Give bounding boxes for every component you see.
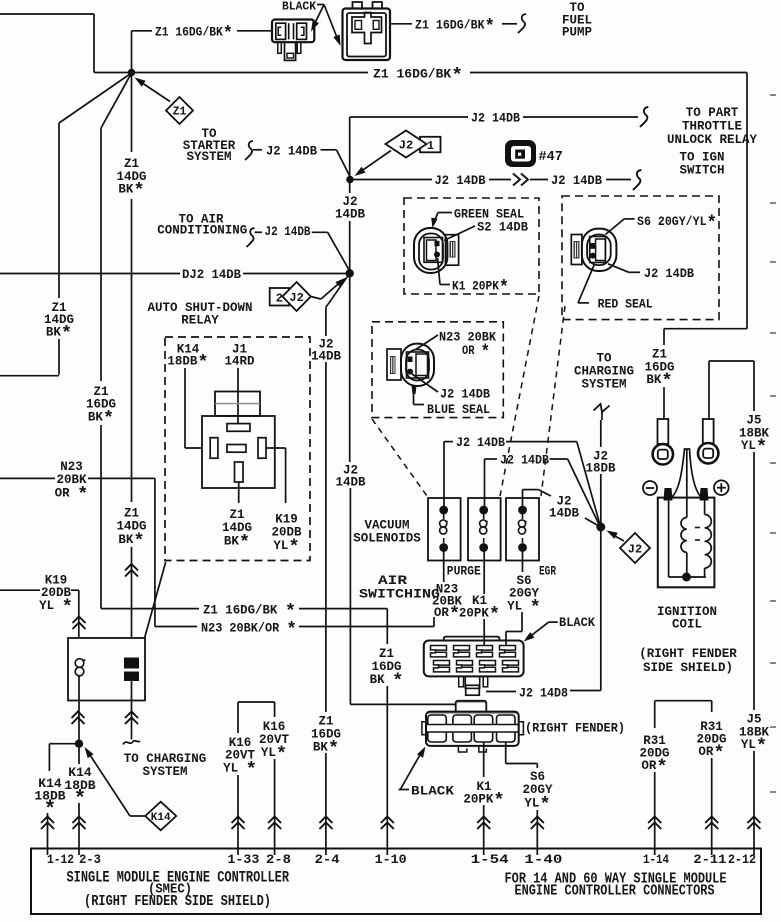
svg-text:N23: N23	[60, 460, 83, 474]
blue seal round connector	[387, 344, 434, 386]
wire S6 from EGR solenoid	[506, 548, 541, 646]
junction node dot A	[128, 69, 136, 77]
label TO STARTER SYSTEM with lead	[183, 127, 350, 177]
green seal connector dashed box	[404, 198, 539, 294]
wire N23 20BK OR from left edge	[0, 460, 155, 627]
svg-text:Z1: Z1	[652, 348, 667, 362]
wire J5 18BK YL to pin 2-12	[739, 713, 770, 856]
svg-text:PURGE: PURGE	[447, 565, 481, 579]
relay K14 pin wire	[185, 368, 202, 448]
svg-text:14RD: 14RD	[224, 355, 255, 369]
svg-text:K16: K16	[263, 720, 286, 734]
svg-text:PUMP: PUMP	[562, 26, 592, 40]
wire Z1 16DG/BK top horizontal bus	[132, 23, 273, 73]
svg-text:(RIGHT FENDER): (RIGHT FENDER)	[525, 722, 625, 736]
wire J2 14DB to part throttle unlock relay	[350, 107, 649, 127]
label J2 14DB (red seal) with leader	[608, 264, 694, 281]
svg-text:2-4: 2-4	[315, 852, 340, 867]
svg-text:Z1: Z1	[173, 106, 187, 119]
wire Z1 16DG BK to pin 1-10	[370, 609, 404, 855]
svg-text:J2 14DB: J2 14DB	[551, 174, 602, 188]
svg-text:1-14: 1-14	[643, 852, 669, 867]
relay/capacitor component box (left)	[68, 638, 145, 701]
wire top-left feed from left edge	[0, 14, 132, 73]
svg-text:RED SEAL: RED SEAL	[598, 298, 653, 312]
svg-text:COIL: COIL	[672, 618, 702, 632]
label RED SEAL with leader	[578, 265, 653, 312]
svg-text:SWITCHING: SWITCHING	[359, 588, 440, 602]
wire Z1 14DG BK vertical (x=131.5)	[116, 73, 146, 639]
svg-text:J2: J2	[628, 542, 642, 556]
dashed leader blue box to purge solenoid	[372, 419, 427, 496]
ring terminal (coil negative)	[653, 419, 673, 464]
to charging system break symbol	[594, 404, 610, 420]
label N23 20BK OR (blue seal) with leader	[415, 331, 496, 364]
wire K16 20VT YL to pin 2-8	[259, 720, 290, 855]
relay contact wire to K19	[266, 448, 286, 503]
svg-text:GREEN SEAL: GREEN SEAL	[454, 208, 524, 222]
wire R31 splice bracket	[655, 701, 712, 728]
svg-text:S2 14DB: S2 14DB	[477, 221, 528, 235]
wire R31 20DG OR to pin 1-14	[639, 734, 669, 855]
wire J2 14DB from A/C junction to pin 2-4	[311, 273, 350, 855]
svg-text:J2 14DB: J2 14DB	[265, 225, 311, 239]
svg-text:RELAY: RELAY	[181, 314, 219, 328]
svg-text:Z1: Z1	[379, 647, 394, 661]
wire J2 14DB vertical to right-fender connector	[335, 273, 456, 704]
svg-text:CHARGING: CHARGING	[574, 365, 634, 379]
connector (right fender 14-way)	[422, 701, 524, 752]
dashed leader red box to EGR solenoid	[541, 306, 565, 496]
svg-text:J2 14D8: J2 14D8	[519, 687, 568, 701]
junction node dot E (coil junction)	[596, 523, 605, 532]
vacuum solenoid air switching	[468, 498, 501, 561]
svg-text:TO IGN: TO IGN	[679, 151, 724, 165]
svg-text:SYSTEM: SYSTEM	[186, 150, 231, 164]
connector symbol J2 diamond with 1 box	[355, 131, 441, 177]
svg-text:1-54: 1-54	[471, 852, 509, 867]
wire S6 20GY YL to pin 1-40	[506, 742, 553, 855]
connector symbol J2 diamond (coil)	[607, 531, 651, 564]
wire K1 from solenoid 2	[459, 548, 500, 646]
wire J2 14D8 from junction to connector	[486, 527, 601, 701]
label K1 20PK with leader	[438, 258, 510, 299]
wire branch to Z1 16DG BK (x=101)	[86, 73, 132, 609]
svg-text:J5: J5	[746, 713, 761, 727]
junction node dot C (A/C branch)	[346, 269, 354, 277]
svg-text:Z1: Z1	[229, 508, 244, 522]
right margin scan ticks	[770, 95, 776, 792]
red seal round connector	[571, 229, 616, 271]
wire Z1 16DG BK to coil negative	[644, 73, 747, 420]
svg-text:BLACK: BLACK	[559, 616, 595, 630]
connector symbol 2-J2 diamond with box	[270, 278, 346, 312]
svg-text:J2 14DB: J2 14DB	[440, 388, 490, 402]
label BLACK (lower connector) with arrow	[399, 747, 455, 799]
svg-text:SIDE SHIELD): SIDE SHIELD)	[643, 661, 733, 675]
connector symbol Z1 diamond	[135, 78, 194, 125]
svg-text:BLACK: BLACK	[282, 0, 317, 14]
svg-text:#47: #47	[539, 150, 563, 165]
maze connector bottom pins	[459, 676, 488, 695]
svg-text:14DB: 14DB	[335, 476, 366, 490]
svg-text:DJ2 14DB: DJ2 14DB	[182, 268, 241, 282]
svg-text:BLUE SEAL: BLUE SEAL	[427, 403, 490, 417]
wire K19 below box to junction	[72, 700, 85, 744]
svg-text:VACUUM: VACUUM	[364, 519, 409, 533]
svg-text:2-12: 2-12	[728, 852, 756, 867]
svg-text:K19: K19	[275, 513, 298, 527]
svg-text:AIR: AIR	[378, 574, 408, 588]
connector symbol K14 diamond	[85, 747, 177, 830]
wire K19 20DB YL from left edge	[0, 574, 86, 639]
svg-text:J5: J5	[746, 414, 761, 428]
ring terminal (coil positive)	[698, 419, 718, 463]
wire J2 14DB vertical (x=349.7)	[335, 117, 366, 273]
red seal connector dashed box	[562, 196, 719, 320]
svg-text:2: 2	[276, 292, 283, 306]
label GREEN SEAL with arrow	[431, 208, 524, 229]
junction node dot B (starter branch)	[346, 176, 354, 184]
svg-text:18DB: 18DB	[585, 462, 616, 476]
svg-text:J2 14DB: J2 14DB	[644, 267, 694, 281]
wire K16 20VT YL to pin 1-33	[223, 736, 257, 855]
auto shut-down relay dashed box	[165, 337, 310, 561]
svg-text:1-12: 1-12	[47, 852, 74, 867]
label SINGLE MODULE ENGINE CONTROLLER	[67, 869, 290, 911]
green seal round connector	[414, 228, 459, 273]
svg-text:K14: K14	[151, 812, 171, 824]
wire K1 20PK to pin 1-54	[463, 742, 504, 855]
symbol #47 splice	[506, 141, 563, 166]
wire J2 18DB vertical	[585, 420, 616, 527]
svg-text:TO: TO	[596, 352, 612, 366]
ignition coil body	[643, 449, 729, 587]
label S2 14DB with leader	[444, 221, 528, 241]
wire Z1 16DG/BK horizontal (lower)	[101, 601, 387, 623]
relay bottom wire Z1	[238, 482, 240, 503]
leader arrow to connector A	[311, 5, 324, 32]
svg-text:*: *	[74, 789, 86, 812]
relay body (auto shut-down)	[202, 392, 275, 489]
svg-text:Z1: Z1	[124, 157, 139, 171]
svg-text:J2 14DB: J2 14DB	[500, 454, 549, 468]
svg-text:1-10: 1-10	[375, 852, 407, 867]
wire K16 splice bridge	[238, 702, 275, 733]
vacuum solenoid purge	[428, 498, 461, 561]
svg-text:THROTTLE: THROTTLE	[682, 120, 742, 134]
blue seal connector dashed box	[372, 322, 503, 418]
svg-text:J2 14DB: J2 14DB	[435, 174, 486, 188]
svg-text:1: 1	[427, 139, 434, 153]
svg-text:Z1: Z1	[318, 715, 333, 729]
label TO AIR CONDITIONING with lead	[157, 213, 349, 272]
leader arrow to connector B	[324, 5, 341, 47]
svg-text:(RIGHT FENDER SIDE SHIELD): (RIGHT FENDER SIDE SHIELD)	[84, 893, 271, 910]
svg-text:TO CHARGING: TO CHARGING	[124, 752, 207, 766]
svg-text:2-8: 2-8	[266, 852, 291, 867]
label BLACK (maze connector) with arrow	[524, 616, 596, 642]
svg-text:S6: S6	[530, 770, 545, 784]
SMEC pin labels	[47, 852, 756, 867]
svg-text:J2 14DB: J2 14DB	[266, 145, 317, 159]
svg-text:1-40: 1-40	[524, 852, 562, 867]
SMEC controller box	[31, 849, 761, 915]
wire J2 14DB to EGR solenoid	[523, 490, 599, 526]
svg-text:EGR: EGR	[539, 565, 556, 579]
wire K14 18DB to pin 2-3	[64, 744, 95, 855]
connector (black) 60-way maze	[424, 637, 524, 677]
svg-text:SYSTEM: SYSTEM	[581, 378, 626, 392]
svg-text:J2: J2	[289, 291, 303, 305]
relay J1 coil wire	[237, 368, 239, 424]
wire J5 bracket to coil positive	[709, 361, 769, 710]
wire R31 20DG OR to pin 2-11	[696, 720, 726, 855]
wire to charging system (bottom left)	[123, 700, 140, 745]
junction node dot D (K14 splice)	[75, 740, 83, 748]
diagonal wire from relay box to component box	[145, 562, 166, 638]
wire DJ2 14DB from left edge	[0, 268, 350, 282]
label S6 20GY/YL with leader	[605, 212, 717, 234]
wire N23 20BK/OR horizontal	[155, 617, 434, 641]
connector B (top, to fuel pump)	[343, 2, 391, 60]
wire K14 18DB to pin 1-12	[34, 744, 79, 855]
label FOR 14 AND 60 WAY connectors	[505, 871, 727, 900]
svg-text:J2 14DB: J2 14DB	[456, 436, 505, 450]
svg-text:14DB: 14DB	[335, 208, 366, 222]
label BLUE SEAL with marker	[412, 386, 491, 417]
connector A (2-way, top left)	[272, 20, 314, 61]
wire J2 14DB to solenoid 2	[485, 454, 600, 526]
svg-text:UNLOCK RELAY: UNLOCK RELAY	[667, 133, 758, 147]
wire N23 from purge solenoid	[432, 548, 463, 626]
label J2 14DB (blue seal) with leader	[412, 374, 490, 402]
svg-text:14DB: 14DB	[549, 507, 580, 521]
wire Z1 16DG/BK to fuel pump	[390, 14, 526, 38]
svg-text:TO PART: TO PART	[686, 106, 739, 120]
svg-text:SYSTEM: SYSTEM	[142, 765, 187, 779]
svg-text:2-11: 2-11	[693, 852, 726, 867]
dashed leader green box to solenoid 2	[500, 296, 539, 496]
svg-text:CONDITIONING: CONDITIONING	[157, 223, 247, 237]
svg-text:J2: J2	[399, 138, 413, 152]
svg-text:(RIGHT FENDER: (RIGHT FENDER	[639, 647, 737, 661]
svg-text:J2 14DB: J2 14DB	[471, 112, 520, 126]
wire J2 14DB to ignition switch	[353, 170, 641, 190]
svg-text:ENGINE CONTROLLER CONNECTORS: ENGINE CONTROLLER CONNECTORS	[515, 883, 715, 900]
svg-text:14DB: 14DB	[311, 350, 342, 364]
wire Z1 16DG/BK main horizontal	[132, 65, 748, 87]
vacuum solenoid EGR	[506, 498, 539, 561]
svg-text:SWITCH: SWITCH	[679, 164, 724, 178]
svg-text:SOLENOIDS: SOLENOIDS	[353, 532, 421, 546]
svg-text:Z1: Z1	[124, 507, 139, 521]
wire J2 14DB to purge solenoid	[444, 436, 600, 525]
svg-text:1-33: 1-33	[227, 852, 259, 867]
svg-text:2-3: 2-3	[79, 852, 101, 867]
wire branch to Z1 14DG BK (x=59)	[0, 73, 132, 376]
svg-text:BLACK: BLACK	[411, 785, 455, 799]
